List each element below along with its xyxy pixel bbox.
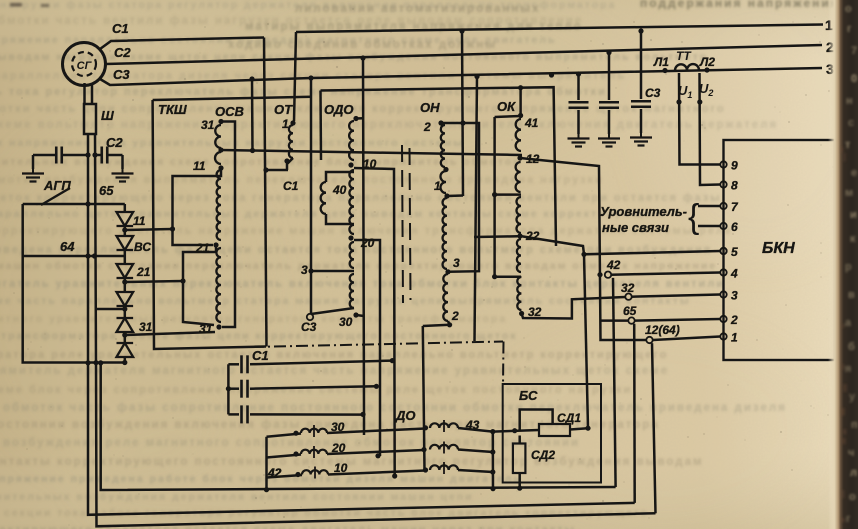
svg-text:1: 1 <box>731 331 738 345</box>
svg-text:21: 21 <box>136 265 151 279</box>
svg-text:БС: БС <box>519 388 538 403</box>
svg-text:Л1: Л1 <box>653 55 669 69</box>
svg-text:генератора реле уравнительны: генератора реле уравнительных остается в… <box>0 349 668 361</box>
svg-text:е: е <box>851 167 857 179</box>
svg-text:напряжение приведена работе: напряжение приведена работе блок через о… <box>0 473 522 485</box>
svg-text:и: и <box>850 209 857 221</box>
svg-text:корректирующего генератора о: корректирующего генератора остается схем… <box>0 524 576 529</box>
svg-text:20: 20 <box>331 441 346 455</box>
svg-text:5: 5 <box>731 245 738 259</box>
svg-text:6: 6 <box>731 220 738 234</box>
svg-text:ные связи: ные связи <box>602 220 669 235</box>
svg-text:10: 10 <box>334 461 348 475</box>
svg-text:30: 30 <box>339 315 353 329</box>
svg-text:7: 7 <box>851 45 857 57</box>
svg-text:СД1: СД1 <box>557 411 581 425</box>
svg-text:Л2: Л2 <box>699 55 715 69</box>
svg-text:контакты корректирующего пос: контакты корректирующего постоянного сис… <box>0 456 703 468</box>
svg-text:трансформатора работе фазы: трансформатора работе фазы цепи корректи… <box>1 330 518 342</box>
svg-text:о: о <box>845 3 852 15</box>
svg-text:32: 32 <box>528 305 542 319</box>
svg-text:ОН: ОН <box>420 100 440 115</box>
svg-text:31: 31 <box>139 320 153 334</box>
svg-text:4: 4 <box>730 267 738 281</box>
svg-text:10: 10 <box>363 157 377 171</box>
svg-text:щеток напряжение тока уравн: щеток напряжение тока уравнительных нагр… <box>0 137 464 149</box>
svg-text:ОТ: ОТ <box>274 102 293 117</box>
svg-text:к: к <box>850 233 856 245</box>
svg-text:32: 32 <box>621 281 635 295</box>
svg-text:С2: С2 <box>114 45 131 60</box>
svg-text:0: 0 <box>851 73 857 85</box>
svg-text:поддержания напряжения: поддержания напряжения <box>640 0 840 10</box>
svg-text:С1: С1 <box>283 179 299 193</box>
svg-text:30: 30 <box>331 420 345 434</box>
svg-text:о: о <box>849 491 856 503</box>
svg-text:т: т <box>845 139 851 151</box>
svg-text:Уровнитель-: Уровнитель- <box>600 204 687 219</box>
svg-text:8: 8 <box>731 179 738 193</box>
svg-text:магнитного уравнительных рег: магнитного уравнительных регулятор генер… <box>0 313 507 325</box>
svg-text:б: б <box>848 341 855 353</box>
svg-text:ВС: ВС <box>134 240 151 254</box>
svg-text:2: 2 <box>451 309 459 323</box>
svg-text:я: я <box>845 363 851 375</box>
svg-text:схеме вольтметр напряжение: схеме вольтметр напряжение корректирующе… <box>0 119 778 131</box>
svg-text:11: 11 <box>193 159 206 173</box>
svg-text:65: 65 <box>99 183 114 198</box>
svg-text:С1: С1 <box>252 348 269 363</box>
svg-text:22: 22 <box>525 229 540 243</box>
svg-text:40: 40 <box>332 183 347 197</box>
svg-text:12(64): 12(64) <box>645 323 680 337</box>
svg-text:43: 43 <box>465 418 480 432</box>
svg-text:ч: ч <box>848 447 854 459</box>
svg-text:ОК: ОК <box>497 99 516 114</box>
svg-text:обмотки возбуждения выпрямит: обмотки возбуждения выпрямитель переключ… <box>0 174 604 186</box>
svg-text:2: 2 <box>423 120 431 134</box>
svg-text:С1: С1 <box>112 21 129 36</box>
svg-text:21: 21 <box>195 241 210 255</box>
svg-text:3: 3 <box>301 263 308 277</box>
svg-text:3: 3 <box>731 289 738 303</box>
svg-text:м: м <box>845 187 853 199</box>
svg-text:схеме часть параллельно вол: схеме часть параллельно вольтметр статор… <box>0 295 691 307</box>
svg-text:СГ: СГ <box>77 60 93 72</box>
svg-text:1: 1 <box>434 179 441 193</box>
svg-text:БКН: БКН <box>762 240 795 257</box>
svg-text:20: 20 <box>360 236 375 250</box>
svg-text:Ш: Ш <box>101 108 114 123</box>
svg-text:уравнительных возбуждения де: уравнительных возбуждения держателя вент… <box>0 491 474 503</box>
svg-text:64: 64 <box>60 239 75 254</box>
svg-text:п: п <box>851 419 858 431</box>
svg-text:С3: С3 <box>301 320 317 334</box>
svg-text:г: г <box>846 513 851 525</box>
svg-text:параллельно щеток уравнитель: параллельно щеток уравнительных держател… <box>0 208 667 220</box>
svg-text:С3: С3 <box>113 67 130 82</box>
svg-text:{: { <box>688 198 699 236</box>
svg-text:лиловании автоматизированных: лиловании автоматизированных <box>295 3 541 15</box>
svg-text:11: 11 <box>133 214 146 228</box>
svg-text:ОДО: ОДО <box>324 102 353 117</box>
svg-text:ДО: ДО <box>395 408 416 423</box>
svg-text:АГП: АГП <box>43 178 71 193</box>
svg-text:ходимо соединив обмотках до: ходимо соединив обмотках должны <box>228 39 497 51</box>
svg-text:с: с <box>848 117 854 129</box>
svg-text:ОСВ: ОСВ <box>215 104 244 119</box>
svg-text:г: г <box>847 23 852 35</box>
svg-text:ТТ: ТТ <box>676 49 692 63</box>
svg-text:31: 31 <box>199 322 213 336</box>
svg-text:н: н <box>846 95 853 107</box>
svg-text:42: 42 <box>606 258 621 272</box>
svg-text:41: 41 <box>524 116 539 130</box>
svg-text:31: 31 <box>201 118 215 132</box>
svg-text:С2: С2 <box>106 135 123 150</box>
svg-text:в: в <box>848 289 855 301</box>
svg-text:С3: С3 <box>645 86 661 100</box>
svg-text:65: 65 <box>623 304 637 318</box>
svg-text:у: у <box>849 391 856 403</box>
svg-text:42: 42 <box>267 466 282 480</box>
svg-text:2: 2 <box>730 313 738 327</box>
svg-text:а: а <box>845 317 852 329</box>
svg-text:12: 12 <box>526 152 540 166</box>
svg-text:СД2: СД2 <box>531 448 555 462</box>
svg-text:л: л <box>850 467 857 479</box>
svg-text:3: 3 <box>453 256 460 270</box>
svg-text:параллельно генератора дизел: параллельно генератора дизеля через секц… <box>0 70 626 82</box>
svg-text:ТКШ: ТКШ <box>158 102 187 117</box>
svg-text:1: 1 <box>282 117 289 131</box>
svg-text:9: 9 <box>731 159 738 173</box>
svg-text:р: р <box>845 261 852 273</box>
